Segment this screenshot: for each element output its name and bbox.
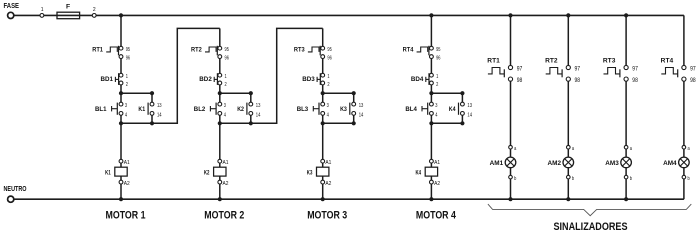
svg-text:3: 3 [435,103,437,109]
svg-text:1: 1 [126,74,128,80]
svg-text:97: 97 [632,66,638,72]
svg-text:K3: K3 [307,169,313,176]
node junction bottom bus sinalizador 1 [508,197,512,201]
svg-text:F: F [66,4,70,11]
svg-text:AM3: AM3 [605,160,619,167]
terminal NEUTRO [8,196,14,202]
wire RT1 to BD1 [120,59,122,74]
svg-text:a: a [514,146,516,152]
svg-text:RT3: RT3 [603,57,616,64]
wire BL3 to rail bottom [322,115,324,123]
node junction top bus sinalizador 2 [566,13,570,17]
svg-text:A2: A2 [434,181,440,187]
svg-text:AM2: AM2 [548,160,562,167]
wire lamp AM1 to neutro bus [510,179,512,199]
svg-text:96: 96 [436,55,441,61]
terminal 2 [92,7,96,17]
svg-text:4: 4 [224,112,226,118]
svg-text:K3: K3 [340,106,347,113]
wire RT1 to lamp AM1 [510,81,512,145]
svg-text:95: 95 [327,47,332,53]
svg-text:BD1: BD1 [101,76,114,83]
node junction top bus sinalizador 1 [508,13,512,17]
svg-text:K2: K2 [204,169,210,176]
wire rail to coil K1 [120,123,122,159]
node junction bottom bus sinalizador 2 [566,197,570,201]
svg-text:97: 97 [517,66,523,72]
svg-text:BD2: BD2 [199,76,212,83]
svg-text:MOTOR 2: MOTOR 2 [204,210,244,222]
wire K4 contact to rail bottom [461,115,463,123]
svg-text:BD4: BD4 [411,76,424,83]
svg-text:3: 3 [327,103,329,109]
svg-text:AM4: AM4 [663,160,677,167]
wire RT3 to lamp AM3 [625,81,627,145]
wire rail bottom motor 1 [121,122,177,124]
thermal relay contact RT4 pins 97-98 [661,57,697,84]
node junction rail bottom motor 1 [119,121,123,125]
svg-text:2: 2 [225,82,227,88]
svg-text:98: 98 [575,78,581,84]
svg-text:3: 3 [125,103,127,109]
svg-text:96: 96 [225,55,230,61]
svg-text:K4: K4 [449,106,456,113]
thermal relay contact RT4 pins 95-96 [403,46,441,62]
svg-text:14: 14 [467,112,472,118]
wire FASE bus [14,14,684,16]
node junction top bus motor 1 [119,13,123,17]
thermal relay contact RT1 pins 97-98 [487,57,523,84]
node junction bottom bus motor 4 [429,197,433,201]
wire BD3 to parallel rail [322,85,324,93]
auxiliary contact K3 pins 13-14 [340,102,363,118]
svg-text:14: 14 [157,112,162,118]
contactor coil K3 pins A1-A2 [307,159,332,187]
wire rail top to K2 contact branch [220,92,251,94]
pushbutton NO BL2 pins 3-4 [194,102,226,118]
node junction bottom bus sinalizador 3 [624,197,628,201]
svg-text:13: 13 [359,103,364,109]
svg-text:b: b [688,176,690,182]
signal lamp AM4 pins a-b [663,145,690,181]
wire into BL3 [322,93,324,102]
svg-text:4: 4 [327,112,329,118]
wire RT4 to lamp AM4 [683,81,685,145]
svg-text:b: b [572,176,574,182]
contactor coil K4 pins A1-A2 [416,159,441,187]
wire drop to RT4 97-98 [683,15,685,65]
wire BD2 to parallel rail [219,85,221,93]
svg-text:NEUTRO: NEUTRO [4,186,28,193]
svg-text:K1: K1 [105,169,111,176]
svg-text:A1: A1 [434,160,440,166]
wire drop to RT2 [219,28,221,46]
svg-text:BL4: BL4 [405,106,417,113]
svg-text:MOTOR 1: MOTOR 1 [106,210,146,222]
svg-text:AM1: AM1 [490,160,504,167]
thermal relay contact RT3 pins 97-98 [603,57,639,84]
pushbutton NC BD1 pins 1-2 [101,73,129,88]
svg-text:a: a [630,146,632,152]
svg-text:97: 97 [690,66,696,72]
svg-text:3: 3 [224,103,226,109]
wire K2 contact to rail bottom [250,115,252,123]
svg-text:4: 4 [435,112,437,118]
svg-text:RT2: RT2 [545,57,558,64]
node junction rail top motor 1 [119,91,123,95]
fuse F [57,4,80,19]
svg-text:98: 98 [517,78,523,84]
wire rail top to K1 contact branch [121,92,152,94]
svg-text:a: a [572,146,574,152]
svg-text:98: 98 [690,78,696,84]
wire NEUTRO bus [14,198,684,200]
svg-text:14: 14 [359,112,364,118]
wire coil K1 to neutro bus [120,184,122,199]
thermal relay contact RT2 pins 97-98 [545,57,581,84]
wire into K1 contact [151,93,153,102]
wire lamp AM4 to neutro bus [683,179,685,199]
svg-text:RT4: RT4 [661,57,674,64]
svg-text:95: 95 [436,47,441,53]
wire rail bottom motor 2 [220,122,277,124]
node junction bottom bus motor 1 [119,197,123,201]
terminal 1 [40,7,44,17]
wire rail to coil K3 [322,123,324,159]
svg-text:95: 95 [126,47,131,53]
svg-text:FASE: FASE [4,3,20,10]
svg-text:RT4: RT4 [403,47,414,54]
auxiliary contact K2 pins 13-14 [237,102,260,118]
svg-text:1: 1 [41,7,44,13]
svg-text:2: 2 [126,82,128,88]
terminal FASE [8,12,14,18]
svg-text:A2: A2 [124,181,130,187]
svg-text:97: 97 [575,66,581,72]
svg-text:96: 96 [327,55,332,61]
svg-text:BL3: BL3 [297,106,309,113]
wire drop to RT4 [430,15,432,46]
wire BL2 to rail bottom [219,115,221,123]
thermal relay contact RT2 pins 95-96 [191,46,229,62]
svg-text:K1: K1 [138,106,145,113]
wire rail top to K3 contact branch [323,92,354,94]
svg-text:BL1: BL1 [95,106,107,113]
wire into BL4 [430,93,432,102]
wire BD1 to parallel rail [120,85,122,93]
thermal relay contact RT3 pins 95-96 [294,46,332,62]
wire BD4 to parallel rail [430,85,432,93]
wire RT3 to BD3 [322,59,324,74]
node junction rail top motor 4 [429,91,433,95]
svg-text:96: 96 [126,55,131,61]
wire lamp AM2 to neutro bus [567,179,569,199]
wire drop to RT1 [120,15,122,46]
svg-text:a: a [688,146,690,152]
signal lamp AM3 pins a-b [605,145,632,181]
wire into K2 contact [250,93,252,102]
wire into BL2 [219,93,221,102]
node junction top bus motor 4 [429,13,433,17]
svg-text:RT1: RT1 [92,47,103,54]
svg-text:2: 2 [327,82,329,88]
wire rail to coil K4 [430,123,432,159]
wire coil K4 to neutro bus [430,184,432,199]
svg-text:RT1: RT1 [487,57,500,64]
svg-text:13: 13 [467,103,472,109]
wire into BL1 [120,93,122,102]
svg-text:BD3: BD3 [302,76,315,83]
wire BL1 to rail bottom [120,115,122,123]
node junction rail bottom K2 branch [249,121,253,125]
node junction bottom bus motor 3 [321,197,325,201]
wire into K4 contact [461,93,463,102]
brace SINALIZADORES group [488,204,691,216]
node junction rail top K3 branch [352,91,356,95]
svg-text:A1: A1 [223,160,229,166]
node junction rail bottom K1 branch [150,121,154,125]
wire coil K3 to neutro bus [322,184,324,199]
svg-text:13: 13 [256,103,261,109]
pushbutton NC BD3 pins 1-2 [302,73,330,88]
svg-text:4: 4 [125,112,127,118]
wire lamp AM3 to neutro bus [625,179,627,199]
pushbutton NO BL1 pins 3-4 [95,102,127,118]
wire cascade motor 2 to RT3 [251,28,323,123]
wire into K3 contact [353,93,355,102]
pushbutton NO BL3 pins 3-4 [297,102,329,118]
svg-text:RT3: RT3 [294,47,305,54]
wire cascade motor 1 to RT2 [152,28,220,123]
thermal relay contact RT1 pins 95-96 [92,46,130,62]
pushbutton NO BL4 pins 3-4 [405,102,437,118]
wire drop to RT3 [322,28,324,46]
node junction rail top K4 branch [460,91,464,95]
svg-text:BL2: BL2 [194,106,206,113]
node junction top bus sinalizador 3 [624,13,628,17]
svg-text:b: b [514,176,516,182]
svg-text:14: 14 [256,112,261,118]
svg-text:1: 1 [225,74,227,80]
svg-text:K4: K4 [416,169,422,176]
node junction rail bottom motor 2 [218,121,222,125]
contactor coil K2 pins A1-A2 [204,159,229,187]
pushbutton NC BD4 pins 1-2 [411,73,439,88]
auxiliary contact K1 pins 13-14 [138,102,161,118]
pushbutton NC BD2 pins 1-2 [199,73,227,88]
svg-text:2: 2 [93,7,96,13]
wire BL4 to rail bottom [430,115,432,123]
svg-text:95: 95 [225,47,230,53]
svg-text:1: 1 [436,74,438,80]
svg-text:MOTOR 4: MOTOR 4 [416,210,456,222]
auxiliary contact K4 pins 13-14 [449,102,472,118]
wire drop to RT2 97-98 [567,15,569,65]
svg-text:98: 98 [632,78,638,84]
signal lamp AM1 pins a-b [490,145,517,181]
svg-text:b: b [630,176,632,182]
svg-text:SINALIZADORES: SINALIZADORES [554,221,628,233]
wire rail bottom motor 4 [431,122,462,124]
svg-text:1: 1 [327,74,329,80]
node junction rail bottom motor 4 [429,121,433,125]
node junction bottom bus motor 2 [218,197,222,201]
svg-text:K2: K2 [237,106,244,113]
wire K1 contact to rail bottom [151,115,153,123]
node junction rail top motor 3 [321,91,325,95]
svg-text:A2: A2 [223,181,229,187]
contactor coil K1 pins A1-A2 [105,159,130,187]
svg-text:A1: A1 [325,160,331,166]
wire rail bottom motor 3 [323,122,354,124]
node junction rail bottom K4 branch [460,121,464,125]
svg-text:RT2: RT2 [191,47,202,54]
wire rail to coil K2 [219,123,221,159]
node junction rail bottom K3 branch [352,121,356,125]
node junction rail top K1 branch [150,91,154,95]
node junction rail top K2 branch [249,91,253,95]
svg-text:A2: A2 [325,181,331,187]
wire drop to RT3 97-98 [625,15,627,65]
wire RT4 to BD4 [430,59,432,74]
wire RT2 to BD2 [219,59,221,74]
svg-text:MOTOR 3: MOTOR 3 [307,210,347,222]
svg-text:2: 2 [436,82,438,88]
node junction rail bottom motor 3 [321,121,325,125]
svg-text:A1: A1 [124,160,130,166]
signal lamp AM2 pins a-b [548,145,575,181]
wire rail top to K4 contact branch [431,92,462,94]
wire K3 contact to rail bottom [353,115,355,123]
wire coil K2 to neutro bus [219,184,221,199]
wire RT2 to lamp AM2 [567,81,569,145]
node junction rail top motor 2 [218,91,222,95]
wire drop to RT1 97-98 [510,15,512,65]
svg-text:13: 13 [157,103,162,109]
